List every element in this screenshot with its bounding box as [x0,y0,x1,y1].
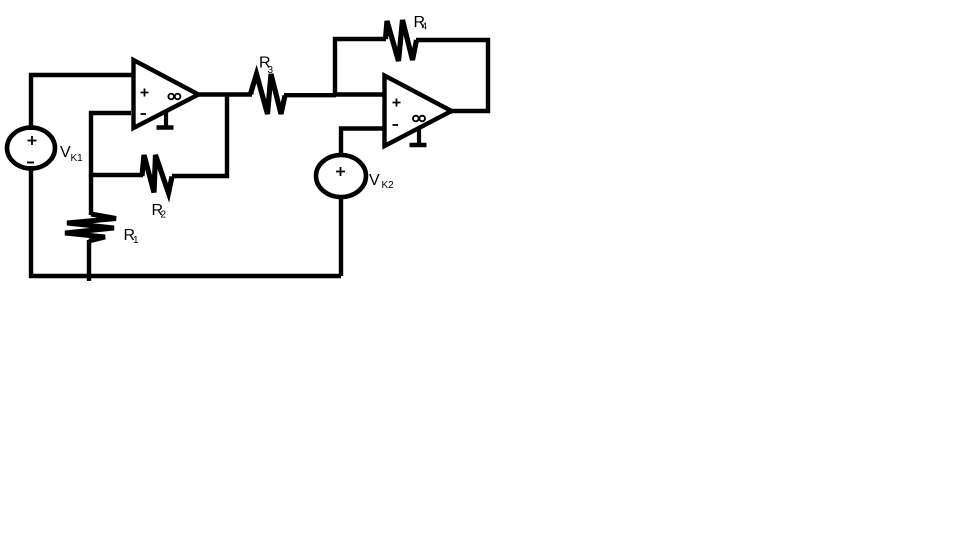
wire: U1 output to R3 [197,92,252,96]
wire: U2 - input to V_K2 top [341,129,385,157]
wire: R4 right lead and down to U2 output [416,40,488,111]
wire: node B to U2 + input [334,92,385,96]
op-amp U2 [385,76,452,147]
ground (U1) [164,112,168,127]
resistor R4 [386,20,417,61]
wire: R2 left lead [89,173,143,177]
voltage source V_K1 [7,128,55,169]
svg-text:2: 2 [161,210,167,221]
wire: R1 bottom lead crossing bottom rail [87,240,91,281]
svg-text:K1: K1 [71,153,84,164]
svg-text:3: 3 [268,65,274,76]
voltage source V_K2 [316,155,366,197]
svg-text:4: 4 [422,22,428,33]
wire: bottom rail and V_K1 bottom [31,166,341,276]
wire: node B up to R4 left lead [335,39,386,96]
op-amp U1 [134,60,199,128]
wire: node A vertical to U1 - input [91,113,131,177]
wire: R3 to junction node B [284,93,336,97]
wire: V_K2 bottom to ground rail [339,196,343,276]
resistor R2 [142,155,172,193]
wire: node A down to R1 [89,175,93,215]
wire: V_K1 top to op-amp U1 + input [31,75,133,130]
svg-text:K2: K2 [382,180,395,191]
wire: R2 right lead up to U1 output [172,93,227,176]
ground (U2) [417,129,421,144]
svg-text:V: V [369,172,380,189]
resistor R1 [65,214,116,241]
svg-text:V: V [60,144,71,161]
resistor R3 [251,74,285,114]
svg-text:1: 1 [133,235,139,246]
